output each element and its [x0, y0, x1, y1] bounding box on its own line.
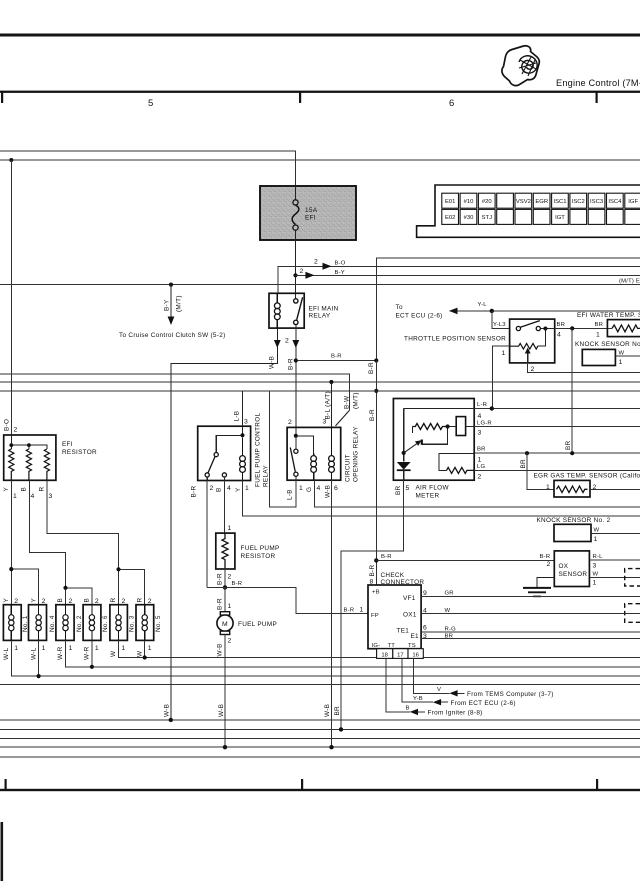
svg-text:L-B: L-B	[286, 489, 293, 500]
wire: B-R branch to check-connector vertical	[296, 360, 377, 362]
bottom-left page edge mark	[1, 822, 4, 881]
knock sensor No.1 box	[582, 349, 615, 365]
bus 4 y284.6 full width	[0, 284, 640, 286]
svg-text:W-B: W-B	[324, 485, 331, 498]
wire: LG line from AFM pin2	[474, 469, 640, 471]
svg-text:2: 2	[531, 366, 535, 373]
wire: FP net to check connector FP pin	[207, 587, 368, 613]
check connector bottom pin cells	[377, 649, 424, 659]
svg-text:B: B	[21, 487, 28, 492]
svg-text:1: 1	[14, 645, 18, 652]
circuit opening relay box	[287, 427, 341, 480]
wire: B-R vertical x376.3 down to check connector	[375, 361, 377, 586]
wire: bus y160 full width	[0, 159, 640, 161]
AFM pin4 internal wire	[404, 408, 475, 410]
svg-text:6: 6	[449, 98, 454, 109]
svg-text:IGF: IGF	[628, 199, 638, 205]
EFI resistor box	[4, 435, 56, 480]
bus 1 y257.8 with corner down at x376.3	[376, 258, 640, 361]
svg-text:1: 1	[594, 536, 598, 543]
svg-text:FUEL PUMP: FUEL PUMP	[241, 545, 280, 552]
dashed ECU box upper right	[625, 569, 640, 586]
svg-text:FUEL PUMP CONTROL: FUEL PUMP CONTROL	[255, 413, 262, 487]
wire: knock sensor 2 pin W	[591, 532, 640, 534]
wire: B-R from FPCR pin2 down	[206, 481, 208, 588]
wire: injectors No.3/No.5 return	[119, 640, 640, 657]
svg-text:ECT ECU (2-6): ECT ECU (2-6)	[396, 313, 443, 320]
node: cruise control tap	[169, 283, 173, 287]
wire: BR vertical x572.2 down to AFM BR line	[571, 328, 573, 453]
engine logo blob	[502, 46, 539, 86]
wire: pin17 to ECT ECU	[402, 658, 433, 702]
bottom border rule	[0, 789, 640, 791]
svg-text:B-R: B-R	[191, 486, 198, 498]
injector No.2	[56, 605, 74, 641]
AFM wiper arm	[404, 443, 418, 453]
svg-text:1: 1	[299, 485, 303, 492]
svg-text:B-R: B-R	[368, 362, 375, 374]
EFI water temp sensor box	[607, 320, 640, 337]
wire: L-B net FPCR pin3 to COR pin1	[269, 391, 296, 507]
svg-text:1: 1	[69, 645, 73, 652]
svg-text:B-R: B-R	[217, 573, 224, 585]
bottom bus y729.4	[0, 728, 640, 730]
EFI resistor internal bus	[11, 435, 47, 449]
injector bottom labels	[3, 645, 152, 660]
injector No.6	[83, 605, 101, 641]
svg-text:B-L (A/T): B-L (A/T)	[324, 391, 331, 419]
wire: Y line from FPCR pin1 to right edge	[243, 481, 640, 517]
wire: AFM BR pin5 route to bottom bus	[341, 480, 404, 729]
wire: W-B from COR pin6 down to bottom bus	[331, 480, 333, 747]
connector pin labels row 2	[445, 215, 565, 221]
svg-text:W-B: W-B	[163, 704, 170, 717]
svg-text:From TEMS Computer (3-7): From TEMS Computer (3-7)	[467, 691, 554, 698]
wire: FPCR pin3 riser to bus	[242, 391, 244, 426]
node: B-R joins vertical	[374, 358, 378, 362]
svg-text:ISC3: ISC3	[590, 199, 604, 205]
svg-text:W-L: W-L	[30, 647, 37, 660]
svg-text:VF1: VF1	[403, 595, 416, 602]
svg-text:1: 1	[245, 485, 249, 492]
svg-text:EFI: EFI	[62, 441, 73, 448]
svg-text:BR: BR	[334, 706, 341, 716]
connector cells row 2	[442, 209, 640, 224]
svg-text:W-B: W-B	[324, 704, 331, 717]
wire: BR line from AFM pin1	[474, 452, 640, 454]
wire: VF1 GR line	[421, 596, 640, 598]
svg-text:Y: Y	[30, 598, 37, 603]
knock sensor No.2 box	[554, 524, 591, 541]
zone tick middle	[299, 92, 301, 103]
wire: BR from TPS pin4 to water temp sensor	[555, 327, 612, 329]
svg-text:E01: E01	[445, 199, 455, 205]
FPCR switch	[214, 453, 218, 457]
svg-text:4: 4	[557, 332, 561, 339]
svg-text:B-R: B-R	[217, 598, 224, 610]
svg-text:B: B	[406, 706, 410, 712]
svg-text:1: 1	[596, 332, 600, 339]
svg-text:1: 1	[148, 645, 152, 652]
svg-text:6: 6	[334, 485, 338, 492]
svg-text:Y: Y	[3, 598, 10, 603]
arrow on B-Y wire	[305, 272, 314, 279]
fuel pump control relay box	[198, 426, 251, 480]
wire: TPS pin2 drop and run right	[528, 363, 640, 372]
svg-text:R: R	[39, 487, 46, 492]
bus y382 full width	[0, 381, 640, 383]
TPS idle switch	[516, 321, 554, 346]
svg-text:(M/T): (M/T)	[176, 295, 183, 312]
wire: B from FPCR pin4 to fuel pump resistor	[223, 481, 225, 534]
svg-text:2: 2	[210, 485, 214, 492]
bus B-W (M/T) y374 with corner down at x349.3 and diagonal to COR pin3	[0, 374, 349, 410]
node: junction with bus y390.9	[374, 389, 378, 393]
AFM potentiometer track	[412, 424, 448, 430]
svg-text:ISC1: ISC1	[553, 199, 566, 205]
check connector box	[368, 585, 421, 649]
svg-text:E02: E02	[445, 215, 455, 221]
svg-text:W: W	[445, 608, 451, 614]
svg-text:Engine Control (7M-: Engine Control (7M-	[556, 78, 640, 88]
svg-text:4: 4	[317, 485, 321, 492]
svg-text:W-B: W-B	[218, 704, 225, 717]
injector No.1	[3, 605, 21, 641]
bottom tick middle	[301, 779, 303, 789]
node: EGR BR tap	[525, 451, 529, 455]
svg-text:OX1: OX1	[403, 612, 417, 619]
node: BR join	[339, 727, 343, 731]
node: L-R joins TPS pin1 vertical	[490, 406, 494, 410]
svg-text:W-R: W-R	[57, 646, 64, 660]
svg-text:1: 1	[228, 603, 232, 610]
svg-text:STJ: STJ	[482, 215, 493, 221]
svg-text:+B: +B	[372, 590, 380, 596]
svg-text:B-O: B-O	[335, 261, 346, 267]
svg-text:From Igniter (8-8): From Igniter (8-8)	[428, 710, 483, 717]
svg-text:B-Y: B-Y	[335, 270, 345, 276]
svg-text:#10: #10	[464, 199, 475, 205]
zone tick left	[1, 92, 3, 103]
svg-text:1: 1	[619, 359, 623, 366]
node: B-R / FP junction	[223, 585, 227, 589]
svg-text:KNOCK SENSOR No. 1: KNOCK SENSOR No. 1	[575, 341, 640, 348]
top border rule	[0, 34, 640, 37]
svg-text:LG-R: LG-R	[477, 421, 492, 427]
svg-text:W: W	[136, 650, 143, 657]
svg-text:ISC4: ISC4	[608, 199, 622, 205]
node: W-B relay ground join	[169, 718, 173, 722]
svg-text:From ECT ECU (2-6): From ECT ECU (2-6)	[451, 700, 516, 707]
svg-text:3: 3	[49, 493, 53, 500]
svg-text:4: 4	[227, 485, 231, 492]
svg-text:RESISTOR: RESISTOR	[241, 553, 276, 560]
wire: B-L (A/T) drop to COR pin 3	[330, 382, 332, 427]
bus 3 B-Y y275.3	[296, 274, 640, 276]
wire: R feed to injectors No.3/No.5	[47, 480, 145, 604]
svg-text:V: V	[437, 687, 441, 693]
svg-text:AIR FLOW: AIR FLOW	[416, 485, 450, 492]
fuel pump resistor element	[222, 533, 228, 568]
svg-text:2: 2	[593, 484, 597, 491]
svg-text:Y-B: Y-B	[413, 696, 423, 702]
FPCR internal: pin3 node and wiring	[216, 426, 242, 452]
svg-text:4: 4	[31, 493, 35, 500]
wire: L-R line from AFM pin4	[474, 408, 640, 410]
node: B-R branch at relay wire	[294, 358, 298, 362]
svg-text:2: 2	[300, 268, 304, 275]
wire: Y-L3 drop into TPS pin 3	[492, 311, 510, 329]
svg-text:1: 1	[42, 645, 46, 652]
bottom bus y747.2	[0, 746, 640, 748]
throttle position sensor box	[510, 319, 555, 363]
svg-text:1: 1	[13, 493, 17, 500]
bottom tick right	[596, 779, 598, 789]
svg-text:1: 1	[502, 350, 506, 357]
svg-text:3: 3	[478, 430, 482, 437]
OX sensor box	[554, 551, 589, 587]
EFI main relay coil	[274, 293, 280, 328]
svg-text:BR: BR	[395, 485, 402, 495]
wire: B-R line to OX sensor pin 2	[376, 559, 554, 561]
svg-text:3: 3	[423, 633, 427, 640]
wire: W line from OX pin1	[589, 576, 640, 578]
EFI resistor elements (3 vertical)	[9, 449, 14, 480]
node: Y-L junction	[490, 309, 494, 313]
zone tick right	[596, 92, 598, 103]
node: BR vertical join	[570, 451, 574, 455]
svg-text:B: B	[84, 598, 91, 603]
connector pin labels row 1	[445, 199, 639, 205]
wire: B-O vertical x11.3 from y160 to EFI resistor	[10, 160, 12, 435]
node: junction on y160 at x11.3	[9, 158, 13, 162]
svg-text:3: 3	[244, 419, 248, 426]
svg-text:KNOCK SENSOR No. 2: KNOCK SENSOR No. 2	[537, 517, 611, 524]
FPCR coil	[240, 437, 246, 480]
svg-text:3: 3	[593, 563, 597, 570]
svg-text:BR: BR	[477, 447, 486, 453]
svg-text:R-L: R-L	[593, 554, 604, 560]
fuse element 15A EFI	[292, 186, 299, 240]
svg-text:15A: 15A	[305, 207, 318, 214]
svg-text:RELAY: RELAY	[309, 313, 331, 320]
svg-text:W: W	[110, 650, 117, 657]
svg-text:9: 9	[423, 590, 427, 597]
svg-text:B-R: B-R	[369, 565, 376, 577]
wire: EGR pin2 line	[590, 488, 640, 490]
svg-text:2: 2	[547, 561, 551, 568]
svg-text:BR: BR	[520, 459, 527, 469]
wire: OX sensor ground lead	[537, 578, 554, 588]
svg-text:2: 2	[288, 419, 292, 426]
svg-text:IGT: IGT	[555, 215, 565, 221]
svg-text:EFI: EFI	[305, 215, 316, 222]
svg-text:GR: GR	[445, 590, 454, 596]
svg-text:3: 3	[323, 419, 327, 426]
svg-text:1: 1	[546, 484, 550, 491]
svg-text:5: 5	[406, 485, 410, 492]
svg-text:R: R	[136, 598, 143, 603]
EFI main relay box	[269, 293, 304, 328]
svg-text:THROTTLE POSITION SENSOR: THROTTLE POSITION SENSOR	[404, 336, 506, 343]
wire: TE1 R-G line	[421, 631, 640, 633]
svg-text:Y: Y	[3, 487, 10, 492]
bottom bus y738.3	[0, 737, 640, 739]
svg-text:6: 6	[423, 625, 427, 632]
node: BR branch	[570, 326, 574, 330]
svg-text:B-R: B-R	[288, 358, 295, 370]
svg-text:Y-L3: Y-L3	[493, 322, 506, 328]
svg-text:W-R: W-R	[84, 646, 91, 660]
wire: E1 BR line	[421, 638, 640, 640]
injector No.5	[136, 605, 154, 641]
svg-text:2: 2	[285, 338, 289, 345]
svg-text:W: W	[594, 528, 600, 534]
EGR resistor	[557, 486, 588, 492]
svg-text:No. 5: No. 5	[155, 615, 162, 632]
COR coil 2	[329, 427, 335, 480]
svg-text:B-Y: B-Y	[164, 299, 171, 311]
svg-text:G: G	[306, 487, 313, 492]
COR internal: pin2 node	[296, 427, 314, 453]
fuel pump resistor box	[216, 533, 235, 569]
COR coil 1	[311, 454, 317, 481]
svg-text:1: 1	[228, 525, 232, 532]
svg-text:BR: BR	[595, 322, 604, 328]
wire: supply bus to fuse (y151)	[0, 151, 296, 200]
bus 2 B-O y266.3 from relay coil riser	[278, 266, 640, 293]
wire: injectors No.1/No.4 return	[11, 640, 640, 676]
svg-text:LG: LG	[477, 464, 485, 470]
AFM left rail with wiper junction	[403, 409, 405, 462]
svg-text:OX: OX	[559, 563, 569, 570]
TPS potentiometer	[510, 343, 538, 349]
svg-text:E1: E1	[411, 633, 420, 640]
svg-text:SENSOR: SENSOR	[559, 571, 588, 578]
wire: FP resistor pin2 to junction	[224, 569, 226, 587]
ground symbol	[523, 588, 551, 597]
svg-text:B-R: B-R	[540, 554, 551, 560]
EFI main relay switch	[294, 293, 303, 328]
wire: relay W-B output with arrow, to long vertical x170.8	[171, 328, 277, 720]
svg-text:(M/T): (M/T)	[352, 392, 359, 409]
svg-text:EFI MAIN: EFI MAIN	[309, 306, 339, 313]
svg-text:W: W	[619, 351, 625, 357]
svg-text:(M/T) E: (M/T) E	[619, 279, 640, 285]
injector top labels	[3, 598, 152, 606]
svg-text:CIRCUIT: CIRCUIT	[345, 454, 352, 482]
svg-text:1: 1	[122, 645, 126, 652]
bottom bus y684.3	[0, 683, 640, 685]
node: fuel pump W-B join	[223, 745, 227, 749]
fuel pump motor	[217, 612, 233, 635]
svg-text:2: 2	[14, 427, 18, 434]
bus y390.9 full width	[0, 390, 640, 392]
wire: B feed to injectors No.2/No.6	[29, 480, 92, 604]
svg-text:4: 4	[423, 608, 427, 615]
svg-text:B-R: B-R	[369, 409, 376, 421]
wire: to cruise control clutch switch with down arrow	[170, 285, 172, 318]
svg-text:W-B: W-B	[269, 356, 276, 369]
svg-text:IG-: IG-	[372, 643, 381, 649]
svg-text:2: 2	[228, 638, 232, 645]
svg-text:R-G: R-G	[445, 627, 457, 633]
svg-text:No. 4: No. 4	[49, 615, 56, 632]
wire: pin18 to igniter	[386, 658, 410, 712]
svg-text:TS: TS	[408, 643, 416, 649]
wire: TPS pin1 to left vertical down to L-R line	[492, 346, 509, 409]
svg-text:2: 2	[478, 474, 482, 481]
svg-text:FUEL PUMP: FUEL PUMP	[238, 621, 277, 628]
svg-text:TE1: TE1	[397, 628, 410, 635]
svg-text:2: 2	[314, 259, 318, 266]
svg-text:EGR GAS TEMP. SENSOR (Califor: EGR GAS TEMP. SENSOR (Califor	[534, 473, 640, 480]
svg-text:2: 2	[228, 574, 232, 581]
svg-text:W-B: W-B	[217, 643, 224, 656]
dashed ECU box lower right	[625, 604, 640, 623]
TPS wiper arrow	[527, 352, 529, 363]
svg-text:#30: #30	[464, 215, 475, 221]
svg-text:B-R: B-R	[331, 354, 342, 360]
svg-text:18: 18	[381, 653, 388, 659]
svg-text:No. 3: No. 3	[128, 615, 135, 632]
wire: fuel pump to bottom bus	[224, 635, 226, 748]
AFM compensation loop	[422, 427, 448, 445]
wire: Y feed to injectors No.1/No.4	[11, 480, 38, 604]
node: B-Y branch junction	[293, 273, 297, 277]
svg-text:EFI WATER TEMP. S: EFI WATER TEMP. S	[577, 312, 640, 319]
air flow meter box	[393, 399, 474, 481]
wire: knock sensor 1 pin W	[615, 355, 640, 357]
svg-text:1: 1	[95, 645, 99, 652]
bottom bus y756.8	[0, 756, 640, 758]
svg-text:ISC2: ISC2	[572, 199, 585, 205]
wire: BR drop to EGR gas temp sensor	[527, 453, 554, 489]
svg-text:No. 2: No. 2	[76, 615, 83, 632]
svg-text:M: M	[222, 621, 228, 628]
wire: LG-R line from AFM pin3	[474, 426, 640, 428]
wire: Y-L line with left arrow to ECT ECU	[450, 310, 640, 312]
svg-text:17: 17	[397, 653, 404, 659]
svg-text:1: 1	[593, 580, 597, 587]
svg-text:R: R	[110, 598, 117, 603]
svg-text:RELAY: RELAY	[263, 465, 270, 487]
injector No.4	[29, 605, 47, 641]
EGR gas temp sensor box	[554, 480, 590, 497]
svg-text:4: 4	[478, 413, 482, 420]
svg-text:To Cruise Control Clutch SW (5: To Cruise Control Clutch SW (5-2)	[119, 332, 226, 339]
connector cells row 1	[442, 193, 640, 208]
COR switch	[294, 449, 298, 453]
svg-text:Y: Y	[235, 487, 242, 492]
svg-text:B-W: B-W	[343, 395, 350, 409]
fuse box 15A EFI (shaded)	[260, 186, 356, 240]
svg-text:B-R: B-R	[381, 554, 392, 560]
svg-text:B-R: B-R	[344, 608, 355, 614]
AFM terminal block	[456, 417, 465, 436]
svg-text:B: B	[57, 598, 64, 603]
svg-text:1: 1	[360, 607, 364, 614]
svg-text:1: 1	[478, 457, 482, 464]
wire: R-L line from OX pin3	[589, 559, 640, 561]
wire: OX1 W line	[421, 613, 640, 615]
water temp resistor	[612, 325, 640, 332]
wire: relay B-R output with arrow down to COR pin 2	[295, 328, 297, 436]
zone scale rule	[0, 91, 640, 93]
wire: fuse output down to EFI main relay	[295, 240, 297, 293]
AFM THA resistor circuit	[439, 453, 474, 470]
svg-text:No. 6: No. 6	[102, 615, 109, 632]
